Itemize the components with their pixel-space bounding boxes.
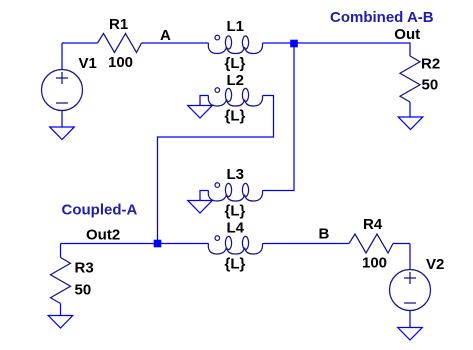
svg-text:100: 100 bbox=[108, 54, 133, 71]
svg-text:{L}: {L} bbox=[225, 203, 246, 220]
svg-text:V2: V2 bbox=[426, 256, 444, 273]
svg-text:50: 50 bbox=[75, 282, 92, 299]
svg-text:Out2: Out2 bbox=[86, 227, 120, 244]
svg-text:V1: V1 bbox=[79, 55, 97, 72]
svg-text:Coupled-A: Coupled-A bbox=[62, 202, 138, 219]
svg-text:R1: R1 bbox=[109, 16, 128, 33]
svg-text:{L}: {L} bbox=[225, 256, 246, 273]
svg-text:R2: R2 bbox=[421, 56, 440, 73]
svg-text:{L}: {L} bbox=[225, 55, 246, 72]
svg-text:{L}: {L} bbox=[225, 108, 246, 125]
svg-text:A: A bbox=[160, 27, 171, 44]
svg-text:R3: R3 bbox=[75, 260, 94, 277]
svg-text:B: B bbox=[319, 226, 330, 243]
svg-text:L1: L1 bbox=[227, 18, 245, 35]
svg-text:Out: Out bbox=[394, 26, 420, 43]
svg-text:L4: L4 bbox=[227, 220, 245, 237]
svg-text:Combined A-B: Combined A-B bbox=[330, 9, 434, 26]
svg-text:50: 50 bbox=[422, 77, 439, 94]
svg-text:L3: L3 bbox=[227, 166, 245, 183]
svg-text:L2: L2 bbox=[227, 72, 245, 89]
svg-text:R4: R4 bbox=[363, 216, 383, 233]
svg-text:100: 100 bbox=[362, 255, 387, 272]
